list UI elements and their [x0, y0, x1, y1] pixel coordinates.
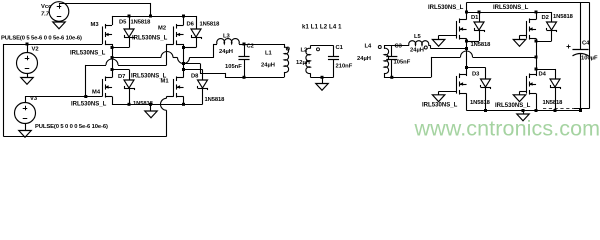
- svg-text:IRL530NS_L: IRL530NS_L: [495, 103, 531, 109]
- value IRL530NS_L (M5): [428, 5, 464, 11]
- wire M3 drain lead: [112, 16, 114, 25]
- value 24uH (L3): [219, 49, 233, 55]
- inductor L2 (transformer secondary A): [306, 45, 320, 77]
- wire V2 gate rail to M3: [3, 44, 102, 46]
- diode D8: [183, 69, 207, 104]
- node junction MB drain-top bus: [535, 11, 538, 14]
- label D8: [191, 74, 199, 80]
- wire M7 gate to ground: [439, 91, 457, 94]
- label Vcc: [41, 4, 52, 10]
- node junction node B-right leg: [182, 62, 185, 65]
- diode D7: [112, 69, 135, 104]
- wire M6 gate to ground: [519, 35, 526, 39]
- label k1 L1 L2 L4 1: [302, 25, 342, 31]
- label L2: [301, 48, 308, 54]
- svg-text:M4: M4: [92, 90, 101, 96]
- capacitor C4: [572, 2, 588, 110]
- wire M4 source lead: [112, 96, 114, 104]
- wire V3 minus stub: [25, 123, 27, 130]
- diode D5: [112, 16, 135, 48]
- inductor L5: [409, 41, 429, 49]
- label L5: [414, 34, 422, 40]
- wire output bottom bus: [466, 110, 580, 112]
- node junction C2 top: [243, 43, 246, 46]
- ground input bridge: [145, 104, 158, 118]
- wire M6 drain lead: [536, 12, 538, 20]
- value IRL530NS_L (M1): [131, 74, 167, 80]
- label V2: [32, 47, 39, 53]
- ground M5 gate: [432, 40, 445, 47]
- wire output left leg mid: [466, 38, 468, 76]
- value IRL530NS_L (M6): [493, 5, 529, 11]
- label L4: [365, 44, 373, 50]
- svg-text:1N5818: 1N5818: [553, 14, 574, 20]
- svg-text:D8: D8: [191, 74, 199, 80]
- wire output right leg mid: [536, 38, 538, 76]
- label D3: [472, 72, 480, 78]
- value IRL530NS_L (M4): [71, 102, 107, 108]
- capacitor C3: [386, 45, 397, 77]
- inductor L1 (transformer primary): [284, 44, 289, 77]
- transistor M6 (output upper right): [527, 18, 537, 39]
- label D2: [542, 15, 549, 21]
- wire input bottom bus: [112, 104, 203, 106]
- node junction M8 source-bottom bus: [535, 109, 538, 112]
- node junction D8-right leg: [182, 68, 185, 71]
- svg-text:1N5818: 1N5818: [131, 20, 152, 26]
- transistor M1: [174, 76, 184, 97]
- inductor L3: [214, 39, 243, 45]
- node junction D1-top bus: [478, 11, 481, 14]
- svg-text:D4: D4: [539, 72, 547, 78]
- value 1N5818 (D7): [133, 101, 154, 107]
- node junction M2 drain-bus: [182, 15, 185, 18]
- wire V2 minus stub: [27, 73, 29, 77]
- value 105nF (C3): [394, 60, 411, 66]
- node junction L5-left leg: [465, 47, 468, 50]
- value 12uH (L2): [296, 60, 310, 66]
- wire middle top: [310, 45, 333, 47]
- svg-text:12µH: 12µH: [296, 60, 310, 66]
- svg-text:24µH: 24µH: [261, 63, 275, 69]
- svg-text:210nF: 210nF: [336, 64, 353, 70]
- svg-text:L1: L1: [265, 51, 273, 57]
- voltage source Vcc (7.7V): [49, 2, 69, 22]
- svg-text:M2: M2: [158, 26, 166, 32]
- svg-text:IRL530NS_L: IRL530NS_L: [428, 5, 464, 11]
- transistor M2: [174, 24, 184, 45]
- label M3: [91, 22, 100, 28]
- wire V3 plus stub: [25, 97, 27, 103]
- node junction D1-M5 source: [465, 40, 468, 43]
- inductor L4 (transformer secondary B): [378, 45, 388, 77]
- voltage source V3: [15, 103, 36, 124]
- capacitor C1: [328, 45, 339, 77]
- svg-text:D2: D2: [542, 15, 549, 21]
- diode D2: [536, 12, 557, 42]
- wire M7 source lead: [466, 93, 468, 110]
- diode D4: [536, 69, 561, 111]
- svg-text:24µH: 24µH: [357, 56, 371, 62]
- wire L5 to output bridge: [428, 45, 466, 48]
- ground below V3: [19, 131, 32, 138]
- wire V3 gate rail to M4: [25, 96, 102, 98]
- value 24uH (L4): [357, 56, 371, 62]
- node junction node A-left leg: [111, 56, 114, 59]
- ground M8 gate: [513, 95, 526, 102]
- wire M1 gate riser with hop over bottom bus: [161, 96, 174, 136]
- wire bottom rail to M1 gate: [3, 136, 166, 138]
- ground middle tank: [316, 77, 329, 90]
- label C1: [336, 45, 344, 51]
- diode D1: [466, 12, 484, 42]
- svg-text:1N5818: 1N5818: [470, 100, 491, 106]
- node junction D7-bottom bus: [128, 103, 131, 106]
- node junction D3-left leg: [465, 66, 468, 69]
- wire M8 gate to ground: [519, 91, 526, 94]
- ground M6 gate: [513, 40, 526, 47]
- wire output top bus: [466, 12, 551, 14]
- wire output top rail to C4: [466, 2, 589, 12]
- label M2: [158, 26, 166, 32]
- svg-text:M3: M3: [91, 22, 100, 28]
- node junction D4-bottom bus: [554, 109, 557, 112]
- node junction rail riser: [465, 11, 468, 14]
- svg-text:24µH: 24µH: [219, 49, 233, 55]
- node junction V2-rail: [26, 43, 29, 46]
- svg-text:L3: L3: [223, 33, 231, 39]
- ground M7 gate: [432, 95, 445, 102]
- value 105nF (C2): [225, 64, 242, 70]
- svg-text:IRL530NS_L: IRL530NS_L: [131, 74, 167, 80]
- svg-text:105nF: 105nF: [225, 64, 242, 70]
- label D6: [187, 21, 195, 27]
- value 1N5818 (D6): [200, 21, 221, 27]
- svg-text:IRL530NS_L: IRL530NS_L: [70, 51, 106, 57]
- node junction D5-bus: [128, 15, 131, 18]
- wire M2 gate riser: [166, 44, 173, 65]
- svg-text:1N5818: 1N5818: [205, 97, 226, 103]
- node junction ground-input bus: [149, 103, 152, 106]
- svg-text:IRL530NS_L: IRL530NS_L: [132, 36, 168, 42]
- value PULSE V2: [1, 36, 82, 42]
- value 1N5818 (D1): [471, 42, 492, 48]
- node junction D4-right leg: [535, 68, 538, 71]
- label M4: [92, 90, 101, 96]
- diode D6: [183, 16, 201, 48]
- value 1N5818 (D3): [470, 100, 491, 106]
- svg-text:IRL530NS_L: IRL530NS_L: [71, 102, 107, 108]
- svg-text:C2: C2: [247, 43, 254, 49]
- svg-text:www.cntronics.com: www.cntronics.com: [414, 117, 600, 141]
- node junction V3 rail branch: [84, 95, 87, 98]
- label D7: [118, 74, 125, 80]
- wire V2 plus stub: [27, 44, 29, 53]
- wire right border edge: [543, 2, 590, 108]
- ground output bridge: [517, 110, 530, 120]
- svg-text:Vcc: Vcc: [41, 4, 52, 10]
- label C2: [247, 43, 254, 49]
- transistor M4: [103, 76, 113, 97]
- node junction D2-M6 source: [535, 40, 538, 43]
- value 7.7: [41, 12, 50, 18]
- svg-text:V2: V2: [32, 47, 39, 53]
- transistor M3: [103, 24, 113, 45]
- svg-text:7.7: 7.7: [41, 12, 50, 18]
- label D1: [471, 15, 479, 21]
- svg-text:IRL530NS_L: IRL530NS_L: [493, 5, 529, 11]
- wire V3 branch riser: [85, 65, 87, 97]
- value IRL530NS_L (M7): [422, 103, 458, 109]
- node junction D6-M2 source: [182, 46, 185, 49]
- svg-text:105nF: 105nF: [394, 60, 411, 66]
- svg-text:C3: C3: [395, 44, 403, 50]
- svg-text:PULSE(0 5 0 0 0 5e-6 10e-6): PULSE(0 5 0 0 0 5e-6 10e-6): [35, 124, 108, 130]
- wire return to right leg with hop: [431, 51, 536, 58]
- wire M8 source lead: [536, 93, 538, 110]
- svg-text:1N5818: 1N5818: [471, 42, 492, 48]
- wire secondary top: [384, 45, 409, 47]
- wire V3 branch to M2 gate with hop over left leg: [86, 59, 167, 66]
- svg-text:1N5818: 1N5818: [200, 21, 221, 27]
- svg-text:D1: D1: [471, 15, 479, 21]
- node junction M1 source-bottom bus: [182, 103, 185, 106]
- polarity plus mark C4: [566, 44, 570, 48]
- diode D3: [466, 67, 490, 110]
- label L3: [223, 33, 231, 39]
- node junction Vcc-bus: [149, 15, 152, 18]
- capacitor C2: [238, 44, 249, 77]
- node junction D3-bottom bus: [484, 109, 487, 112]
- svg-text:L5: L5: [414, 34, 422, 40]
- node junction D5-M3 source: [111, 46, 114, 49]
- svg-text:L2: L2: [301, 48, 308, 54]
- voltage source V2: [17, 53, 38, 74]
- svg-text:PULSE(0 5 5e-6 0 0 5e-6 10e-6): PULSE(0 5 5e-6 0 0 5e-6 10e-6): [1, 36, 82, 42]
- node junction C2 bottom: [243, 76, 246, 79]
- wire left leg mid: [112, 44, 114, 78]
- value 1N5818 (D2): [553, 14, 574, 20]
- svg-text:k1 L1 L2 L4 1: k1 L1 L2 L4 1: [302, 25, 342, 31]
- ground below V2: [21, 78, 34, 85]
- node junction ground-output bus: [522, 109, 525, 112]
- wire M5 gate to ground: [439, 35, 457, 39]
- svg-text:IRL530NS_L: IRL530NS_L: [422, 103, 458, 109]
- wire right leg mid: [183, 44, 185, 78]
- wire node A with hops: [112, 44, 214, 64]
- label D5: [119, 20, 127, 26]
- node junction middle ground: [321, 76, 324, 79]
- value 1N5818 (D8): [205, 97, 226, 103]
- label C4: [582, 40, 590, 46]
- value PULSE V3: [35, 124, 108, 130]
- value 210nF (C1): [336, 64, 353, 70]
- wire left vertical V2 feed: [3, 44, 5, 137]
- wire middle bottom: [310, 77, 333, 79]
- node junction C4-bottom bus: [579, 109, 582, 112]
- node junction C3 bottom: [390, 76, 393, 79]
- svg-text:D5: D5: [119, 20, 127, 26]
- wire M5 drain lead: [466, 12, 468, 20]
- wire L3 to L1 top: [243, 44, 284, 46]
- ground below Vcc: [53, 22, 66, 29]
- wire input top bus: [112, 16, 196, 18]
- value IRL530NS_L (M8): [495, 103, 531, 109]
- value IRL530NS_L (M3): [70, 51, 106, 57]
- label M1: [161, 79, 170, 85]
- wire node B stair: [183, 63, 284, 77]
- node junction return-right leg: [535, 56, 538, 59]
- svg-text:D6: D6: [187, 21, 195, 27]
- svg-text:D7: D7: [118, 74, 125, 80]
- label C3: [395, 44, 403, 50]
- svg-text:C1: C1: [336, 45, 344, 51]
- svg-text:24µH: 24µH: [410, 47, 424, 53]
- wire M2 drain lead: [183, 16, 185, 25]
- transistor M7 (output lower left): [457, 73, 467, 94]
- label V3: [30, 96, 38, 102]
- value 24uH (L1): [261, 63, 275, 69]
- transistor M8 (output lower right): [527, 73, 537, 94]
- value 24uH (L5): [410, 47, 424, 53]
- svg-text:1N5818: 1N5818: [543, 100, 564, 106]
- label L1: [265, 51, 273, 57]
- wire secondary return rail: [384, 57, 432, 78]
- wire M1 source lead: [183, 96, 185, 104]
- svg-text:D3: D3: [472, 72, 480, 78]
- wire Vcc top rail: [59, 3, 151, 16]
- node junction D7-left leg: [111, 68, 114, 71]
- value 1N5818 (D5): [131, 20, 152, 26]
- value IRL530NS_L (M2): [132, 36, 168, 42]
- svg-text:L4: L4: [365, 44, 373, 50]
- value 1N5818 (D4): [543, 100, 564, 106]
- transistor M5 (output upper left): [457, 18, 467, 39]
- watermark www.cntronics.com: [414, 117, 600, 141]
- value 100uF (C4): [581, 56, 598, 62]
- label D4: [539, 72, 547, 78]
